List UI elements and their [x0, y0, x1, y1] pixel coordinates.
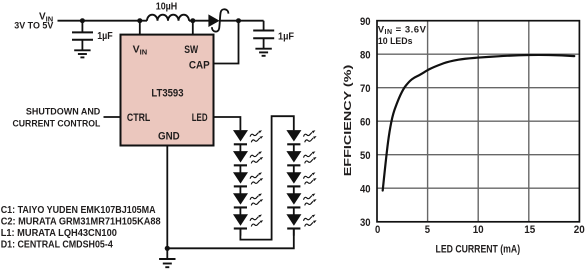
LED string 1 — [233, 130, 248, 151]
svg-text:10: 10 — [473, 224, 484, 236]
ground below C2 — [255, 49, 271, 56]
wire VIN rail to L1 — [58, 20, 148, 22]
wire C2 top lead — [263, 21, 265, 31]
svg-text:90: 90 — [360, 16, 371, 28]
svg-text:10µH: 10µH — [156, 1, 178, 12]
node junction at C1 — [80, 18, 85, 23]
wire string 2 to ground rail — [167, 229, 293, 249]
chart y axis labels — [360, 16, 371, 229]
wire L1 to D1 — [189, 20, 209, 22]
IC U1 LT3593 — [121, 35, 214, 146]
ground symbol main — [159, 259, 175, 267]
LED string 2 — [286, 130, 316, 236]
LED emission arrows 1 — [250, 130, 263, 142]
svg-text:C1: TAIYO YUDEN EMK107BJ105MA: C1: TAIYO YUDEN EMK107BJ105MA — [1, 205, 156, 216]
chart gridlines — [377, 21, 579, 222]
svg-text:LED: LED — [192, 112, 208, 124]
diode D1 schottky — [208, 9, 228, 31]
svg-text:CAP: CAP — [189, 59, 210, 71]
node junction at VIN pin — [137, 18, 142, 23]
wire CTRL pin — [104, 116, 121, 118]
notes component list — [1, 205, 161, 251]
wire LED pin to string 1 — [214, 117, 241, 130]
wire VIN pin stub — [139, 21, 141, 35]
svg-text:80: 80 — [360, 49, 371, 61]
svg-text:CURRENT CONTROL: CURRENT CONTROL — [13, 119, 101, 129]
wire D1 cathode to C2 — [220, 20, 264, 22]
chart annotation — [378, 24, 427, 47]
capacitor C1 1uF — [72, 32, 93, 50]
svg-text:C2: MURATA GRM31MR71H105KA88: C2: MURATA GRM31MR71H105KA88 — [1, 216, 161, 227]
capacitor C2 1uF — [253, 31, 274, 49]
LED string 1 part 2 — [233, 151, 263, 236]
wire series link string1 to string2 — [240, 116, 293, 239]
node VIN input label — [14, 11, 54, 30]
wire GND pin stub — [166, 146, 168, 259]
svg-text:10 LEDs: 10 LEDs — [378, 36, 413, 47]
ground below C1 — [74, 50, 90, 57]
svg-text:40: 40 — [360, 183, 371, 195]
node junction at ground — [165, 246, 170, 251]
svg-text:60: 60 — [360, 116, 371, 128]
svg-text:EFFICIENCY (%): EFFICIENCY (%) — [343, 65, 354, 177]
svg-text:L1: MURATA LQH43CN100: L1: MURATA LQH43CN100 — [1, 228, 118, 239]
svg-text:15: 15 — [524, 224, 535, 236]
svg-text:GND: GND — [158, 131, 180, 143]
chart frame — [377, 21, 579, 222]
svg-text:20: 20 — [574, 224, 585, 236]
node junction at SW pin — [190, 18, 195, 23]
inductor L1 10uH — [147, 15, 189, 21]
svg-text:D1: CENTRAL CMDSH05-4: D1: CENTRAL CMDSH05-4 — [1, 240, 113, 251]
chart efficiency curve — [383, 55, 575, 191]
svg-text:SW: SW — [184, 44, 199, 56]
wire SW pin stub — [192, 21, 194, 35]
svg-text:30: 30 — [360, 217, 371, 229]
svg-text:5: 5 — [425, 224, 430, 236]
svg-text:50: 50 — [360, 150, 371, 162]
shutdown control label — [13, 106, 101, 128]
svg-text:SHUTDOWN AND: SHUTDOWN AND — [26, 106, 101, 116]
node junction at CAP feedback — [236, 18, 241, 23]
svg-text:1µF: 1µF — [97, 31, 113, 42]
svg-text:1µF: 1µF — [278, 32, 294, 43]
svg-text:70: 70 — [360, 83, 371, 95]
svg-text:LED CURRENT (mA): LED CURRENT (mA) — [436, 243, 521, 255]
chart x axis labels — [375, 224, 585, 236]
svg-text:0: 0 — [375, 224, 380, 236]
svg-text:3V TO 5V: 3V TO 5V — [14, 21, 54, 31]
wire C1 top lead — [81, 21, 83, 33]
wire CAP pin to rail — [214, 21, 239, 64]
svg-text:CTRL: CTRL — [127, 112, 151, 124]
svg-text:LT3593: LT3593 — [151, 88, 183, 100]
